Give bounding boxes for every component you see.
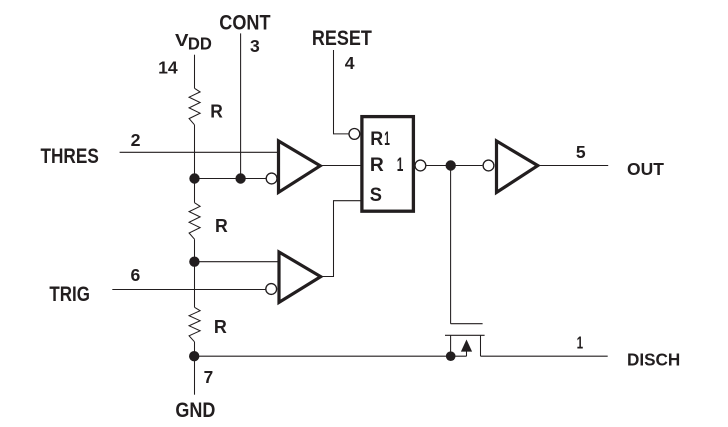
buffer U4 input bubble xyxy=(483,160,494,171)
wire chain R-middle to R-bottom xyxy=(194,239,196,307)
transistor Q1 source lead xyxy=(450,335,452,356)
node ground junction xyxy=(189,351,199,361)
svg-text:OUT: OUT xyxy=(627,159,664,179)
svg-text:R: R xyxy=(214,316,227,337)
wire buffer output to OUT xyxy=(539,165,608,167)
svg-text:1: 1 xyxy=(397,154,404,176)
transistor Q1 channel xyxy=(445,334,485,336)
resistor R middle xyxy=(189,203,200,240)
node CONT junction xyxy=(235,173,245,183)
wire divider node to comparator U2 xyxy=(195,261,281,263)
svg-text:1: 1 xyxy=(577,332,584,352)
transistor Q1 gate plate xyxy=(451,323,483,325)
flip-flop R1 input bubble xyxy=(349,129,360,140)
wire VDD lead xyxy=(194,55,196,89)
node output junction xyxy=(446,160,456,170)
svg-text:THRES: THRES xyxy=(41,145,99,168)
svg-text:R: R xyxy=(370,128,383,150)
wire CONT line xyxy=(240,33,242,178)
comparator U2 xyxy=(279,252,321,302)
flip-flop pin label R1 xyxy=(370,128,390,150)
svg-text:1: 1 xyxy=(384,128,390,150)
svg-text:GND: GND xyxy=(175,399,215,422)
svg-text:DD: DD xyxy=(188,34,212,54)
svg-text:S: S xyxy=(370,184,382,206)
svg-text:3: 3 xyxy=(250,36,260,56)
wire THRES to comparator U1 xyxy=(120,151,280,153)
wire transistor drain to DISCH xyxy=(481,355,608,357)
flip-flop U3 xyxy=(362,117,414,212)
svg-text:6: 6 xyxy=(130,265,140,285)
buffer U4 xyxy=(497,141,538,192)
transistor Q1 body arrow xyxy=(461,340,472,352)
svg-text:4: 4 xyxy=(345,53,355,73)
svg-text:R: R xyxy=(215,215,228,236)
wire RESET to flip-flop R1 input xyxy=(334,50,350,134)
wire output node to transistor Q1 gate xyxy=(450,166,452,324)
transistor Q1 body stub xyxy=(466,350,468,356)
svg-text:2: 2 xyxy=(131,130,141,150)
wire TRIG to comparator U2 inverting input xyxy=(112,289,266,291)
node divider lower xyxy=(189,257,199,267)
wire comparator U2 output to flip-flop S input xyxy=(321,201,361,277)
wire comparator U1 output to flip-flop R input xyxy=(321,165,361,167)
svg-text:14: 14 xyxy=(158,57,178,77)
svg-text:V: V xyxy=(175,30,189,50)
svg-text:RESET: RESET xyxy=(312,27,372,50)
comparator U2 inverting bubble xyxy=(266,284,277,295)
svg-text:R: R xyxy=(210,100,223,121)
comparator U1 xyxy=(279,141,321,192)
wire node row to comparator U1 inverting input xyxy=(195,178,267,180)
flip-flop output bubble xyxy=(415,160,426,171)
svg-text:R: R xyxy=(370,154,384,176)
wire flip-flop output to buffer U4 xyxy=(426,165,483,167)
wire chain R-top to node A xyxy=(194,125,196,203)
wire ground stub xyxy=(194,356,196,395)
svg-text:7: 7 xyxy=(204,367,214,387)
svg-text:DISCH: DISCH xyxy=(627,349,680,369)
comparator U1 inverting bubble xyxy=(266,173,277,184)
resistor R top xyxy=(189,88,200,125)
node transistor source junction xyxy=(446,351,456,361)
power VDD label xyxy=(175,30,212,54)
wire R-bottom to ground node xyxy=(194,342,196,356)
svg-text:TRIG: TRIG xyxy=(49,283,90,306)
wire ground row xyxy=(195,355,467,357)
svg-text:CONT: CONT xyxy=(219,11,270,34)
svg-text:5: 5 xyxy=(576,142,586,162)
transistor Q1 drain lead xyxy=(480,335,482,356)
resistor R bottom xyxy=(189,307,200,342)
node divider upper xyxy=(189,173,199,183)
